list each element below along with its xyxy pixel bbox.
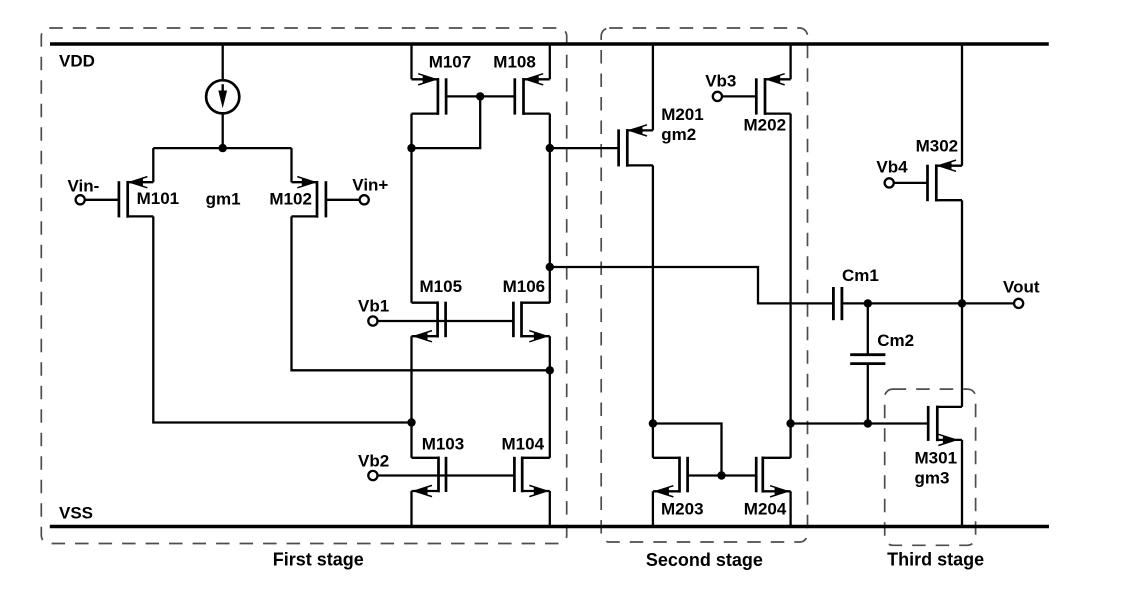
- wire M103 source to VSS: [410, 491, 412, 527]
- wire Vb4 to M302 gate: [894, 182, 928, 184]
- svg-text:M105: M105: [420, 277, 463, 296]
- svg-text:Third stage: Third stage: [887, 550, 984, 570]
- node output junction: [958, 299, 966, 307]
- transistor M101: [119, 177, 153, 218]
- svg-text:Vin+: Vin+: [352, 176, 388, 195]
- wire Vb1 to M105 M106 gates: [378, 320, 514, 322]
- svg-text:Second stage: Second stage: [646, 550, 763, 570]
- wire gate node to M107 drain: [412, 96, 481, 148]
- terminal Vb2: [368, 471, 377, 480]
- capacitor Cm2: [850, 355, 885, 364]
- svg-text:M201: M201: [661, 105, 704, 124]
- wire M302 drain to output: [961, 200, 963, 407]
- node M107 drain junction: [407, 144, 415, 152]
- wire VDD to M302 source: [961, 44, 963, 166]
- node Cm2 top junction: [864, 299, 872, 307]
- terminal Vin-: [76, 195, 85, 204]
- transistor M302: [928, 160, 963, 201]
- terminal Vb4: [885, 178, 894, 187]
- wire M202 drain to M204 drain: [789, 114, 791, 458]
- wire VDD to current source: [222, 44, 224, 80]
- svg-text:VSS: VSS: [59, 503, 93, 522]
- wire M203 M204 gates: [688, 474, 757, 476]
- wire Vb2 to M103 M104 gates: [378, 474, 515, 476]
- wire M201 drain to M203 drain: [652, 165, 654, 457]
- svg-text:M301: M301: [915, 449, 958, 468]
- wire tail to M102 source: [290, 148, 292, 182]
- svg-text:M204: M204: [744, 499, 787, 518]
- transistor M203: [653, 457, 688, 497]
- terminal Vb3: [713, 92, 722, 101]
- wire M104 source to VSS: [549, 491, 551, 527]
- svg-text:M302: M302: [916, 136, 959, 155]
- node M108 drain junction: [546, 144, 554, 152]
- svg-text:M102: M102: [269, 189, 312, 208]
- svg-text:M101: M101: [137, 189, 180, 208]
- wire mirror node to gates: [653, 424, 722, 476]
- first stage dashed box: [41, 28, 566, 544]
- wire Cm1 to output node: [842, 302, 1014, 304]
- wire M105 source to M103 drain: [410, 336, 412, 458]
- svg-text:M106: M106: [503, 277, 546, 296]
- VDD rail: [50, 42, 1049, 46]
- transistor M204: [756, 457, 790, 497]
- node second stage output: [786, 419, 794, 427]
- svg-text:Vb3: Vb3: [705, 72, 736, 91]
- wire M107 drain to M105 drain: [410, 114, 412, 303]
- node first stage output: [546, 263, 554, 271]
- wire M203 source to VSS: [652, 491, 654, 526]
- node M103 drain junction: [407, 418, 415, 426]
- wire current source to tail node: [222, 113, 224, 148]
- wire Vb3 to M202 gate: [722, 95, 756, 97]
- node M203 gate junction: [717, 471, 725, 479]
- svg-text:Vb4: Vb4: [876, 157, 908, 176]
- transistor M107: [412, 74, 447, 115]
- node second stage mirror junction: [649, 419, 657, 427]
- svg-text:Vout: Vout: [1003, 277, 1040, 296]
- wire Cm2 bottom to M301 gate node: [867, 364, 869, 424]
- node M104 drain junction: [546, 366, 554, 374]
- transistor M108: [515, 74, 550, 115]
- wire M102 gate to Vin+: [326, 199, 360, 201]
- wire M301 source to VSS: [961, 440, 963, 527]
- wire second stage output to M301 gate: [791, 422, 929, 424]
- wire VDD to M202 source: [789, 44, 791, 79]
- wire M204 source to VSS: [789, 491, 791, 526]
- svg-text:VDD: VDD: [59, 51, 95, 70]
- wire M106 source to M104 drain: [549, 336, 551, 458]
- transistor M102: [292, 177, 326, 218]
- wire VDD to M201 source: [652, 44, 654, 130]
- wire first stage output to Cm1: [550, 267, 833, 303]
- svg-text:gm1: gm1: [206, 189, 241, 208]
- wire M108 drain to M106 drain: [549, 114, 551, 303]
- svg-text:gm3: gm3: [915, 469, 950, 488]
- wire first stage output to M201 gate: [550, 147, 619, 149]
- svg-text:M107: M107: [429, 53, 472, 72]
- node M301 gate junction: [864, 419, 872, 427]
- svg-text:M202: M202: [744, 115, 787, 134]
- node tail junction: [219, 144, 227, 152]
- svg-text:M203: M203: [661, 499, 704, 518]
- wire M102 drain to M104 drain node: [292, 216, 550, 370]
- svg-text:M104: M104: [502, 434, 545, 453]
- svg-text:Cm2: Cm2: [877, 331, 914, 350]
- wire tail node: [153, 147, 291, 149]
- svg-text:Vb2: Vb2: [358, 451, 389, 470]
- transistor M104: [514, 457, 549, 497]
- capacitor Cm1: [833, 287, 842, 320]
- svg-text:First stage: First stage: [273, 550, 364, 570]
- transistor M103: [412, 457, 447, 497]
- second stage dashed box: [601, 28, 807, 542]
- wire VDD to M108 source: [549, 44, 551, 79]
- wire M101 drain to M103 drain node: [153, 216, 411, 422]
- svg-text:Vb1: Vb1: [358, 297, 389, 316]
- wire M107 M108 gates: [446, 95, 515, 97]
- svg-text:Cm1: Cm1: [842, 266, 879, 285]
- svg-text:M108: M108: [493, 53, 536, 72]
- terminal Vin+: [360, 195, 369, 204]
- third stage dashed box: [885, 389, 976, 545]
- svg-text:Vin-: Vin-: [68, 177, 100, 196]
- svg-text:gm2: gm2: [661, 125, 696, 144]
- node M107 M108 gate junction: [476, 92, 484, 100]
- current source Ib: [206, 80, 239, 113]
- VSS rail: [50, 525, 1049, 529]
- transistor M106: [513, 301, 549, 341]
- terminal Vb1: [368, 316, 377, 325]
- transistor M105: [412, 301, 446, 341]
- wire VDD to M107 source: [410, 44, 412, 79]
- transistor M301: [928, 406, 962, 446]
- wire Cm2 top: [867, 303, 869, 355]
- terminal Vout: [1014, 299, 1023, 308]
- svg-text:M103: M103: [422, 434, 465, 453]
- transistor M201: [619, 125, 653, 167]
- wire tail to M101 source: [152, 148, 154, 182]
- wire Vin- to M101 gate: [85, 199, 119, 201]
- transistor M202: [756, 74, 790, 115]
